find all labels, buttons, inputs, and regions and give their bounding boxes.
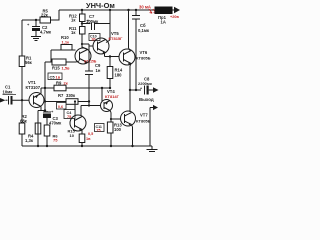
resistor R4 xyxy=(25,123,41,143)
wire: bus y=101.5 xyxy=(45,101,89,103)
transistor VT5 (КТ815Г) xyxy=(93,38,109,54)
svg-text:КТ815Г: КТ815Г xyxy=(109,36,124,41)
svg-text:VT7: VT7 xyxy=(140,113,148,118)
output arrow xyxy=(153,87,159,93)
fuse Пр1 xyxy=(155,7,172,25)
svg-text:1н: 1н xyxy=(96,68,101,73)
resistor R10 xyxy=(61,35,72,50)
svg-text:2200мк: 2200мк xyxy=(138,81,152,86)
svg-text:+: + xyxy=(51,109,54,114)
svg-text:1А: 1А xyxy=(161,20,166,25)
wire: VT7 emitter down to ground rail xyxy=(132,125,133,128)
svg-text:470мк: 470мк xyxy=(49,121,62,126)
svg-text:75: 75 xyxy=(97,128,101,132)
box: C11 measurement xyxy=(95,124,105,133)
resistor R11 xyxy=(69,26,85,35)
wire: centre-left vertical bus x=45 xyxy=(44,62,46,111)
svg-text:КТ805Б: КТ805Б xyxy=(136,119,151,124)
box: measurement 0,6 xyxy=(57,103,67,110)
transistor VT4 (КТ814Г) xyxy=(101,100,113,112)
wire: VT2 collector up xyxy=(80,106,82,116)
resistor R1 xyxy=(19,56,32,67)
node: bus/R7 line xyxy=(44,100,46,102)
svg-text:0,6: 0,6 xyxy=(58,105,63,109)
node D: top rail to VT5 collector xyxy=(109,9,111,11)
wire: top supply rail xyxy=(59,9,174,11)
svg-text:R15: R15 xyxy=(52,66,60,71)
svg-text:КТ3107: КТ3107 xyxy=(26,85,41,90)
node B: top rail to R12 chain xyxy=(81,9,83,11)
wire: output line y=90 xyxy=(130,89,141,91)
svg-text:0,5: 0,5 xyxy=(88,132,93,136)
svg-text:Выход: Выход xyxy=(139,97,154,102)
transistor VT3 xyxy=(75,48,91,64)
svg-text:R7: R7 xyxy=(58,93,64,98)
wire: VT2 base from bus xyxy=(74,102,76,117)
svg-text:1в: 1в xyxy=(86,137,91,141)
node: VT4 collector on feedback line xyxy=(101,87,103,89)
wire: VT5 base branch xyxy=(82,43,89,45)
wire: C6 down the right-centre bus xyxy=(135,19,137,90)
svg-text:КТ805Б: КТ805Б xyxy=(136,56,151,61)
capacitor C8 2200мк xyxy=(138,77,153,95)
wire: left vertical rail xyxy=(21,20,23,146)
wire: to C7 xyxy=(82,23,91,25)
svg-text:75: 75 xyxy=(53,138,58,143)
wire: VT7 collector up to output node xyxy=(129,90,131,112)
wire: VT2 emitter down xyxy=(81,130,83,135)
svg-text:100мк: 100мк xyxy=(86,19,99,24)
transistor VT1 (КТ3107) xyxy=(29,93,44,108)
resistor R6 xyxy=(44,125,58,146)
svg-text:VT6: VT6 xyxy=(140,50,148,55)
node: top rail to VT6 collector xyxy=(127,9,129,11)
transistor VT2 xyxy=(70,115,86,131)
capacitor C2 xyxy=(27,20,52,35)
svg-text:100: 100 xyxy=(114,127,122,132)
capacitor C1 xyxy=(3,85,30,105)
wire: riser to R15 xyxy=(50,50,52,62)
node: VT2 base tap xyxy=(74,100,76,102)
svg-text:1,1к: 1,1к xyxy=(62,40,70,45)
wire: VT4 emitter to VT7 base xyxy=(110,111,111,113)
svg-text:УНЧ-Ом: УНЧ-Ом xyxy=(86,1,115,10)
node A: junction R5 wire / C2 xyxy=(35,19,37,21)
svg-text:R9: R9 xyxy=(56,81,62,86)
svg-text:10мк: 10мк xyxy=(3,90,14,95)
wire: bottom ground rail xyxy=(22,145,152,147)
svg-text:1,3к: 1,3к xyxy=(25,138,34,143)
svg-text:330к: 330к xyxy=(66,93,76,98)
svg-text:+: + xyxy=(27,22,30,27)
ground: under C2 xyxy=(31,31,41,41)
node: R14 tap xyxy=(109,55,111,57)
ammeter note 30 мА (red) xyxy=(139,5,156,14)
supply arrow +20в xyxy=(170,7,180,19)
svg-text:68к: 68к xyxy=(20,119,28,124)
wire: upper-left horizontal xyxy=(22,19,59,21)
svg-text:1,5в: 1,5в xyxy=(62,66,71,71)
wire: VT6 emitter down to output node xyxy=(130,64,131,67)
transistor VT7 (КТ805Б) xyxy=(121,111,136,126)
svg-text:10: 10 xyxy=(70,133,75,138)
wire: VT3 emitter to R15 xyxy=(76,61,79,62)
resistor R9 xyxy=(54,81,68,91)
svg-text:+20в: +20в xyxy=(170,15,179,19)
svg-text:30 мА: 30 мА xyxy=(139,5,151,10)
wire: feedback line y=88 xyxy=(41,87,110,89)
node: R6 at ground rail xyxy=(46,145,48,147)
svg-text:КТ814Г: КТ814Г xyxy=(105,94,120,99)
svg-text:0,1мк: 0,1мк xyxy=(138,28,150,33)
wire: R4 branch vertical xyxy=(37,111,39,147)
svg-text:4,7мк: 4,7мк xyxy=(40,30,52,35)
node: bus/C3 xyxy=(44,109,46,111)
node: R4 at ground rail xyxy=(37,145,39,147)
resistor R15 xyxy=(45,59,76,71)
wire: R4 top to VT1 collector node xyxy=(38,110,45,112)
wire: VT5 collector vertical xyxy=(109,10,111,40)
node: bus/R9 line xyxy=(44,87,46,89)
resistor R14 xyxy=(107,57,123,89)
resistor R12 xyxy=(69,14,85,23)
output return arrow xyxy=(150,105,158,146)
svg-text:1в: 1в xyxy=(56,74,61,79)
svg-text:56к: 56к xyxy=(25,60,33,65)
input arrow xyxy=(0,98,6,103)
capacitor C9 (in x=89 branch) xyxy=(85,63,101,75)
transistor VT6 (КТ805Б) xyxy=(119,49,135,65)
wire: VT5 emitter down and base line of VT6 xyxy=(104,53,106,57)
box: measurement С10 30 xyxy=(89,34,100,42)
box: C5 measurement xyxy=(48,73,62,80)
svg-text:22к: 22к xyxy=(41,13,49,18)
svg-text:75: 75 xyxy=(67,115,71,119)
svg-text:2к: 2к xyxy=(64,81,68,86)
wire: VT1 collector down xyxy=(40,107,42,111)
wire: VT4 collector up to feedback line xyxy=(101,88,103,101)
node C: junction R12/R11 to C7 xyxy=(81,22,83,24)
resistor R13 xyxy=(107,119,122,146)
resistor R2 xyxy=(19,114,27,134)
wire: R12/R11 chain vertical xyxy=(81,10,83,48)
wire: riser from R5 to top rail xyxy=(58,10,60,21)
wire: VT6 collector vertical xyxy=(128,10,130,48)
capacitor C7 xyxy=(86,14,110,30)
box: C4 measurement xyxy=(64,110,75,120)
wire: x89 down to VT4 base line xyxy=(88,102,90,106)
node F: left rail joins input xyxy=(21,99,23,101)
node: x89 on bus xyxy=(88,100,90,102)
wire: VT3 base line xyxy=(51,49,76,51)
node E: top rail to C6 branch xyxy=(135,9,137,11)
node: R14 bottom on feedback line xyxy=(109,87,111,89)
svg-text:+: + xyxy=(140,87,142,91)
resistor (VT2 emitter) xyxy=(79,134,91,146)
ground: bottom right xyxy=(147,146,158,152)
capacitor C3 470мк xyxy=(43,109,62,126)
svg-text:С5: С5 xyxy=(50,74,56,79)
wire: VT1 emitter up to feedback line xyxy=(40,88,42,94)
resistor R5 xyxy=(40,9,51,24)
resistor R7 xyxy=(58,93,78,104)
wire: VT3 collector up to R11 chain xyxy=(82,47,88,50)
capacitor C6 0,1мк xyxy=(132,10,150,33)
svg-text:180: 180 xyxy=(115,73,123,78)
